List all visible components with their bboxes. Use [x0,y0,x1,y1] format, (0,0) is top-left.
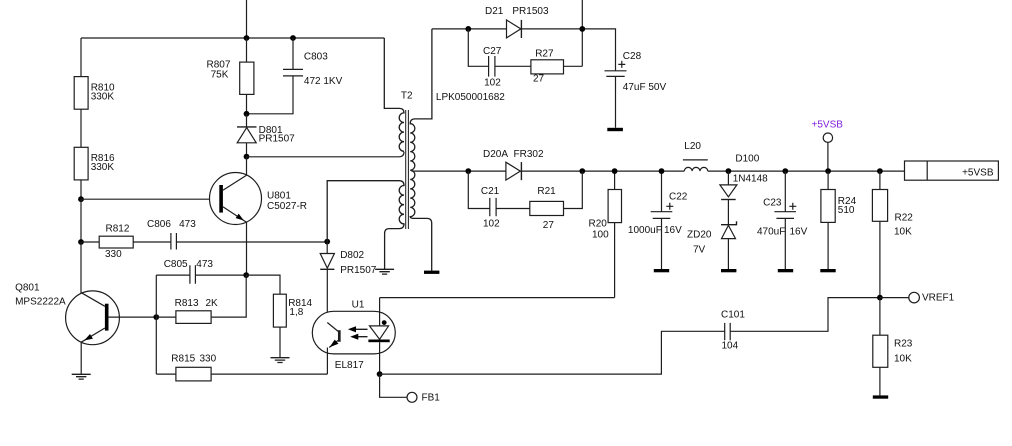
svg-text:R23: R23 [894,338,913,349]
svg-text:PR1507: PR1507 [259,133,296,144]
svg-text:C21: C21 [481,186,500,197]
svg-text:C806: C806 [147,219,171,230]
svg-text:D802: D802 [340,250,364,261]
resistor R22 [872,171,913,298]
svg-text:2K: 2K [206,298,219,309]
resistor R23 [873,298,913,396]
capacitor C803 [247,38,343,114]
svg-text:R27: R27 [535,48,554,59]
ground C22 bar [654,269,669,272]
diode D100 [720,154,768,225]
ground C28 bar [607,128,623,131]
diode D21 [485,6,549,38]
svg-text:T2: T2 [401,90,413,101]
svg-text:473: 473 [179,219,196,230]
svg-text:330K: 330K [91,162,115,173]
svg-text:Q801: Q801 [15,283,40,294]
node rail/C803 junction [290,35,296,41]
node C22 junction [659,168,665,174]
svg-text:C27: C27 [483,46,502,57]
svg-text:C23: C23 [763,197,782,208]
opto-coupler U1 [312,298,395,375]
transformer T2 [327,29,505,271]
svg-text:PR1503: PR1503 [512,6,549,17]
node LED cathode junction [377,371,383,377]
capacitor C806 [147,219,327,249]
svg-text:27: 27 [543,220,555,231]
terminal +5VSB [812,120,844,172]
resistor R812 [81,224,171,260]
svg-text:470uF: 470uF [757,227,785,238]
node R816/base junction [78,196,84,202]
resistor R24 [821,171,857,269]
resistor R21 [530,171,583,231]
svg-text:10K: 10K [894,226,912,237]
svg-text:R813: R813 [175,298,199,309]
svg-text:+5VSB: +5VSB [812,120,844,131]
svg-text:C805: C805 [164,259,188,270]
capacitor C101 [721,298,880,352]
wire collector node to primary bottom [247,152,405,157]
svg-text:C803: C803 [304,51,328,62]
wire top entry right [581,0,583,66]
svg-text:R22: R22 [895,213,914,224]
svg-text:102: 102 [484,78,501,89]
svg-text:C5027-R: C5027-R [267,201,307,212]
node R812/collector junction [78,239,84,245]
svg-text:104: 104 [722,341,739,352]
node D802/aux winding junction [324,239,330,245]
capacitor C805 [156,259,246,284]
svg-text:U1: U1 [352,300,365,311]
resistor R807 [207,38,254,114]
resistor R815 [156,353,327,381]
node D801/R807/C803 junction [244,111,250,117]
wire top-left entry [246,0,248,38]
svg-text:330K: 330K [91,92,115,103]
svg-text:102: 102 [483,219,500,230]
node C27 branch junction [465,26,471,32]
resistor R816 [74,147,115,199]
wire left vertical to R812 node [80,199,82,242]
terminal VREF1 [880,292,955,303]
svg-text:47uF 50V: 47uF 50V [623,82,667,93]
svg-text:VREF1: VREF1 [922,293,955,304]
capacitor C23 [757,171,808,269]
svg-text:16V: 16V [790,227,808,238]
diode D802 [320,242,377,322]
terminal FB1 [380,374,441,404]
svg-text:LPK050001682: LPK050001682 [436,92,505,103]
svg-text:EL817: EL817 [335,360,364,371]
svg-text:D20A: D20A [483,149,508,160]
svg-text:330: 330 [105,249,122,260]
svg-text:100: 100 [592,229,609,240]
svg-text:C101: C101 [721,310,745,321]
node rail/R807 junction [244,35,250,41]
svg-text:ZD20: ZD20 [687,230,712,241]
node R20 top junction [612,168,618,174]
capacitor C22 [628,171,688,269]
node VREF1 junction [877,295,883,301]
resistor R814 [273,294,312,357]
node D801/collector/primary junction [244,154,250,160]
svg-text:PR1507: PR1507 [340,265,377,276]
svg-text:R812: R812 [106,224,130,235]
svg-text:1000uF: 1000uF [628,225,662,236]
svg-text:+5VSB: +5VSB [962,167,994,178]
svg-text:1N4148: 1N4148 [733,174,768,185]
svg-text:R20: R20 [589,219,608,230]
svg-text:330: 330 [200,353,217,364]
svg-text:473: 473 [196,259,213,270]
ground under Q801 [72,374,91,379]
capacitor C21 [468,171,530,230]
svg-text:L20: L20 [684,141,701,152]
svg-text:C28: C28 [623,51,642,62]
wire LED anode to R20 [380,297,615,299]
capacitor C28 [605,51,667,128]
resistor R813 [156,275,246,323]
svg-text:C22: C22 [669,192,688,203]
node C23 junction [782,168,788,174]
ground C23 bar [778,269,793,272]
svg-text:510: 510 [838,205,855,216]
svg-text:16V: 16V [664,225,682,236]
svg-text:10K: 10K [894,354,912,365]
node R27 riser junction [579,26,585,32]
ground primary bottom [375,269,394,274]
ground R24 bar [820,269,835,272]
svg-text:D21: D21 [485,6,504,17]
inductor L20 [683,141,708,171]
diode D801 [237,114,295,157]
wire secondary top row y=29 [432,29,616,71]
node R21 riser junction [579,168,585,174]
wire down to Q801 collector [80,242,82,293]
zener ZD20 [687,221,737,269]
connector +5VSB [905,161,999,180]
svg-text:472 1KV: 472 1KV [304,76,343,87]
ground R23 bar [873,395,888,398]
svg-text:FR302: FR302 [514,149,544,160]
svg-text:D100: D100 [735,154,759,165]
svg-text:7V: 7V [693,245,706,256]
node Q801 base junction [153,314,159,320]
svg-text:75K: 75K [211,69,229,80]
svg-text:1,8: 1,8 [289,307,303,318]
resistor R27 [531,48,582,84]
node C805/emitter junction [243,272,249,278]
svg-text:FB1: FB1 [422,393,441,404]
wire feedback to C101 [380,331,725,374]
node R24 junction [825,168,831,174]
diode D20A [483,149,544,180]
ground secondary bottom bar [424,271,439,274]
ground ZD20 bar [721,269,736,272]
transistor U801 [210,157,308,275]
ground under R814 [271,358,290,363]
transistor Q801 [15,283,156,374]
node D100 junction [726,168,732,174]
node R22 junction [877,168,883,174]
wire U801 base [81,198,219,200]
capacitor C27 [468,29,531,89]
svg-text:R21: R21 [537,186,556,197]
svg-text:MPS2222A: MPS2222A [15,297,66,308]
svg-text:27: 27 [533,73,545,84]
wire C805 left riser [155,275,157,374]
wire B+ rail y=38 [81,37,384,39]
resistor R810 [74,38,115,147]
wire C805 node to R814 [246,275,280,294]
resistor R20 [589,171,622,298]
wire secondary mid rail y=171 [412,170,905,172]
svg-text:R815: R815 [171,353,195,364]
node C21 branch junction [465,168,471,174]
